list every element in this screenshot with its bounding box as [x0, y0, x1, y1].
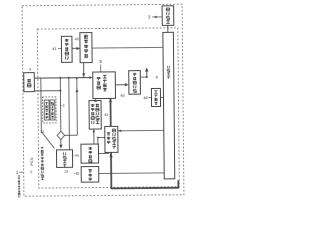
box storage battery unit [56, 150, 72, 168]
wire controller to relay drive [97, 137, 105, 144]
box 45 amplifier [81, 167, 99, 183]
thick wire switch to relay with up arrow [109, 98, 112, 126]
wire diamond to battery with down arrow [59, 140, 62, 149]
label 2 [30, 169, 33, 174]
wire stub grid to control box [167, 25, 169, 32]
svg-text:~2: ~2 [60, 104, 64, 108]
control unit box [163, 32, 175, 179]
svg-text:46: 46 [120, 94, 124, 98]
svg-text:4: 4 [29, 68, 31, 72]
wire diamond right arm [65, 134, 78, 136]
label 2 tilde [60, 104, 64, 108]
arrow converter into switch [94, 99, 97, 102]
outer dashed boundary (solar power system 1) [22, 4, 184, 196]
solar cell string left [44, 100, 49, 120]
wire inverter to control unit [92, 46, 163, 49]
box 5 interconnection switch [93, 72, 116, 99]
svg-text:~45: ~45 [73, 172, 79, 176]
label 48 with leader [143, 96, 151, 100]
box 44 relay drive [105, 126, 118, 152]
wire converter to charge controller with down arrow [92, 129, 95, 144]
label PCS rotated [29, 157, 34, 166]
wire storage box lower to branch [34, 90, 61, 92]
wire controller to power line [99, 152, 109, 154]
wire relay to grid with up arrow [140, 67, 148, 78]
box 48 voltage detector [151, 88, 160, 106]
bus wire horizontal with arrow into switch [34, 76, 92, 79]
label 3 with leader arrow [148, 14, 162, 19]
svg-text:PCS: PCS [29, 157, 34, 166]
label 5 with leader [99, 59, 102, 72]
wire inverter drop to bus with down arrow [82, 63, 85, 78]
wire bus left drop with diagonal [41, 78, 55, 149]
box charge controller [81, 144, 99, 163]
box 41 booster circuit [61, 36, 72, 62]
thick wire relay to grid line [109, 152, 178, 188]
svg-text:43: 43 [104, 113, 108, 117]
label 4 with leader [29, 68, 31, 72]
solar cell string right [50, 100, 55, 120]
box 46 interconnection relay [129, 71, 141, 95]
box 3 commercial power source [162, 6, 174, 26]
wire switch to relay with arrow [115, 83, 128, 86]
wire bus branch to battery unit [68, 77, 71, 150]
wire booster to inverter with arrow [72, 47, 80, 50]
wire amplifier to control [99, 172, 164, 175]
label 45 tilde [73, 172, 79, 176]
label 46 [120, 94, 124, 98]
label 42 [75, 36, 80, 41]
label 21 [40, 130, 44, 134]
solar array dashed box 21 [42, 97, 56, 123]
wire detector to control [160, 96, 163, 98]
inner dashed boundary (power conditioner 2) [37, 28, 179, 188]
svg-text:24: 24 [64, 170, 68, 174]
label 6 [156, 74, 159, 79]
box 42 inverter [80, 33, 92, 63]
svg-text:21: 21 [40, 130, 44, 134]
label 44 tilde [73, 154, 79, 158]
wire bus branch with up arrow [75, 77, 78, 135]
wire relay to control with left arrow [118, 129, 164, 132]
box 43 charge discharge converter [89, 100, 101, 129]
label solar power system vertical [18, 176, 20, 198]
label 43 [104, 113, 108, 117]
label 1 with tick [16, 170, 23, 175]
label 41 with leader [52, 46, 61, 51]
box 4 storage battery [24, 73, 35, 92]
svg-text:~44: ~44 [73, 154, 79, 158]
wire bus to diamond junction [59, 77, 62, 131]
diamond junction [57, 131, 65, 139]
label 24 [64, 170, 68, 174]
label power conditioner vertical [41, 147, 44, 180]
svg-text:48: 48 [143, 96, 147, 100]
